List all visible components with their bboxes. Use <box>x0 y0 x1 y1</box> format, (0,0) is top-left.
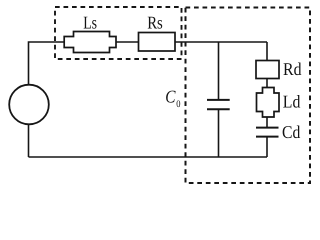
label Rd <box>283 59 301 79</box>
wire Rd to Ld <box>266 79 268 88</box>
wire top rail Rs to right branch <box>175 41 267 43</box>
wire C0 bottom to bottom rail <box>218 109 220 157</box>
resistor Rd <box>256 61 279 79</box>
wire node to C0 top <box>218 42 220 100</box>
svg-text:Cd: Cd <box>282 122 300 142</box>
wire Cd to bottom rail <box>266 137 268 157</box>
wire top rail to Rd <box>266 42 268 61</box>
bottom rail wire <box>29 156 268 158</box>
svg-text:Rs: Rs <box>147 13 163 33</box>
label Ld <box>283 92 301 112</box>
svg-text:C: C <box>165 87 176 107</box>
inductor Ld <box>257 88 280 118</box>
dashed box (resonator equivalent enclosure) <box>186 8 311 184</box>
svg-text:0: 0 <box>176 99 180 110</box>
wire source bottom to bottom rail <box>28 124 30 157</box>
label Rs <box>147 13 163 33</box>
capacitor C0 <box>207 100 230 109</box>
wire Ls to Rs <box>116 41 139 43</box>
label Cd <box>282 122 300 142</box>
svg-text:Ld: Ld <box>283 92 301 112</box>
capacitor Cd <box>256 128 279 137</box>
source V1 <box>9 85 49 125</box>
resistor Rs <box>139 33 176 52</box>
wire Ld to Cd <box>266 117 268 128</box>
dashed box (Ls Rs motional arm enclosure) <box>55 7 182 59</box>
inductor Ls <box>64 32 116 53</box>
wire source top to Ls <box>29 42 65 85</box>
label Ls <box>83 13 97 33</box>
svg-text:Rd: Rd <box>283 59 301 79</box>
label C0 <box>165 87 180 110</box>
svg-text:Ls: Ls <box>83 13 97 33</box>
